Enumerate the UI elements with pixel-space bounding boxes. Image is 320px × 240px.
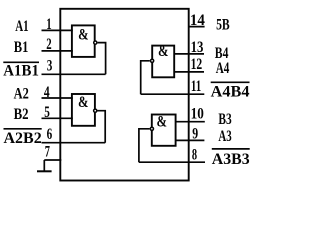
wire gate 2 output to pin 6 [98,111,106,143]
NAND gate 2 box [72,94,95,126]
svg-text:A2: A2 [14,86,29,103]
node A4B4 overline [211,81,250,83]
pin 10 wire [176,121,205,123]
node A2B2 overline [4,128,42,130]
pin 13 wire [174,53,204,55]
node A3B3 overline [212,148,250,150]
svg-text:&: & [156,113,167,130]
svg-text:1: 1 [46,16,51,33]
wire gate 4 output to pin 11 [141,61,150,94]
wire gate 1 output to pin 3 [98,43,106,75]
svg-text:5: 5 [44,104,50,121]
pin 4 wire [42,97,73,99]
svg-text:&: & [158,43,169,60]
pin 3 wire (gate 1 output to pin 3) [42,73,106,75]
ground [37,160,52,171]
NAND gate 4 box [152,46,174,78]
svg-text:8: 8 [192,146,197,163]
pin 8 wire (gate 3 output to pin 8) [139,161,205,163]
svg-text:B2: B2 [14,106,29,123]
pin 5 wire [42,117,73,119]
pin 7 wire (ground pin) [44,159,61,161]
svg-text:7: 7 [45,144,50,161]
IC body outline [60,9,188,181]
NAND gate 4 output bubble [151,59,154,62]
NAND gate 1 box [72,25,95,57]
NAND gate 3 output bubble [150,127,153,130]
svg-text:2: 2 [46,36,51,53]
svg-text:13: 13 [191,39,204,56]
pin 6 wire (gate 2 output to pin 6) [42,142,106,144]
svg-text:A3: A3 [218,128,231,145]
svg-text:3: 3 [47,57,53,74]
pin 12 wire [174,71,204,73]
node A1B1 overline [3,61,39,63]
svg-text:10: 10 [191,106,204,123]
svg-text:14: 14 [190,12,205,29]
pin 14 wire (power pin) [189,26,205,28]
svg-text:A4B4: A4B4 [211,84,250,101]
svg-text:4: 4 [44,84,50,101]
NAND gate 1 output bubble [94,41,97,44]
svg-text:A1B1: A1B1 [3,63,39,80]
svg-text:B3: B3 [218,111,231,128]
svg-text:9: 9 [192,126,198,143]
NAND gate 2 output bubble [94,109,97,112]
svg-text:12: 12 [191,56,203,73]
svg-text:A2B2: A2B2 [4,130,42,147]
svg-text:11: 11 [191,78,201,95]
svg-text:5B: 5B [216,16,230,33]
svg-text:A3B3: A3B3 [212,151,250,168]
wire gate 3 output to pin 8 [139,129,150,162]
svg-text:A4: A4 [216,60,230,77]
svg-text:6: 6 [47,126,53,143]
svg-text:&: & [78,26,89,43]
svg-text:&: & [78,94,89,111]
NAND gate 3 box [152,115,176,146]
svg-text:B1: B1 [14,39,29,56]
pin 2 wire [42,50,73,52]
svg-text:A1: A1 [15,18,28,35]
pin 9 wire [176,139,205,141]
pin 1 wire [42,29,73,31]
pin 11 wire (gate 4 output to pin 11) [141,93,205,95]
